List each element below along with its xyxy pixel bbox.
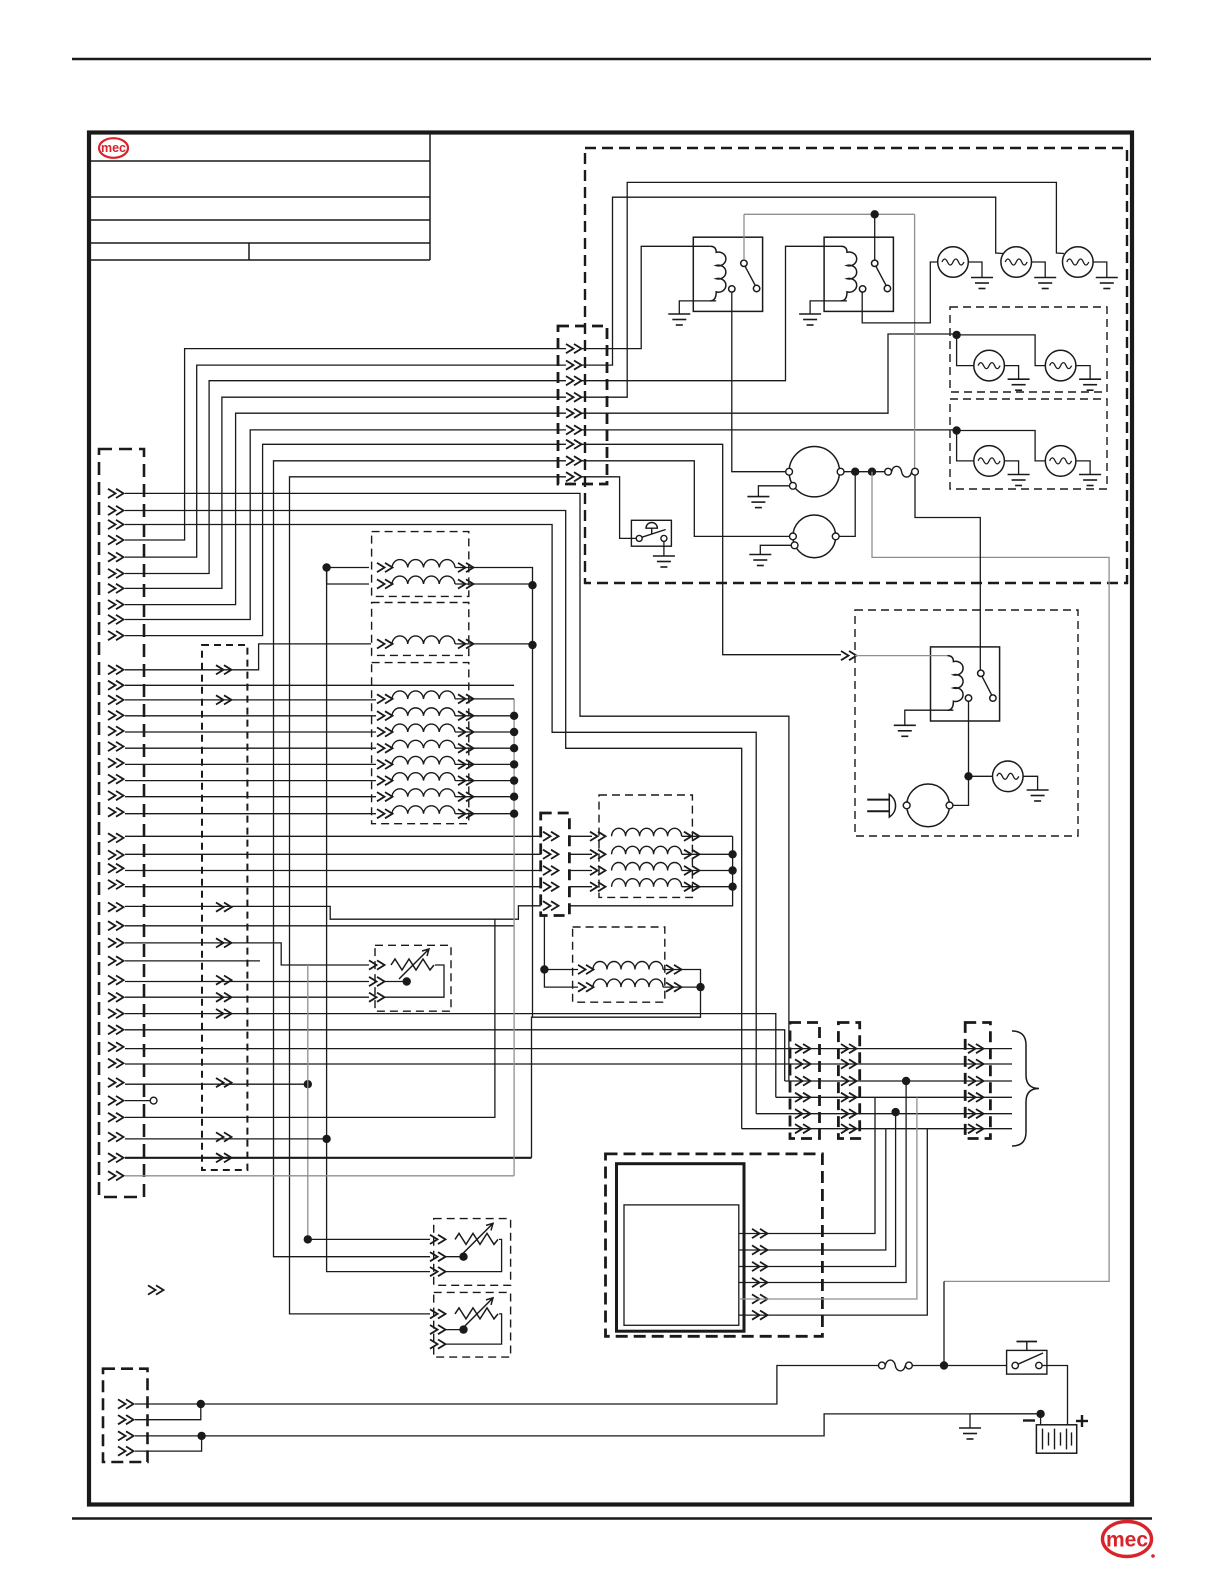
lamp L6a: [974, 446, 1005, 477]
ground (relay K1): [668, 314, 690, 325]
wire S2 to ground: [663, 541, 665, 556]
lamp L6b: [1045, 446, 1076, 477]
connector J1 pin arrows: [108, 489, 124, 1181]
fuse F2 left terminal: [879, 1362, 886, 1369]
wire J1 pin36 open terminal: [125, 1100, 150, 1102]
spare harness arrow: [148, 1285, 164, 1294]
valve V5 coil 2 right arrow: [666, 983, 682, 992]
wire charge rail to relay contacts: [744, 213, 915, 215]
valve V5 coil 1 right arrow: [666, 965, 682, 974]
ground (lamp L3): [1096, 278, 1118, 289]
wire J1 pin33 to J5/J6/J7 row1: [125, 1048, 1012, 1050]
wire V1 coil1 out: [455, 568, 533, 586]
connector J3 (middle top): [558, 326, 607, 484]
potentiometer P2: [455, 1223, 498, 1253]
potentiometer box P1: [375, 945, 451, 1011]
valve V1 coil 2 right arrow: [458, 579, 474, 588]
wire fuse F1 to charger relay: [915, 475, 980, 670]
wire battery rail drop: [943, 1281, 945, 1365]
ground (lamp L6b): [1079, 475, 1101, 486]
controller U1 pin arrows: [752, 1229, 768, 1320]
wire J1 pin28 stub: [125, 960, 260, 962]
platform enclosure (dashed): [585, 148, 1127, 583]
wire J3 pin9 to level switch S2: [582, 477, 636, 539]
valve block V5 (2 coils): [573, 927, 665, 1002]
wire motor M1 to fuse F1: [844, 471, 885, 473]
fuse F1 left terminal: [885, 468, 892, 475]
wire J1 pin3 to J5 pin5: [125, 525, 756, 1114]
wire U1 pin5: [739, 1097, 917, 1299]
wire J1 pin34 to J5/J6/J7 row2: [125, 1063, 1012, 1065]
node J8 34 junction: [197, 1432, 205, 1440]
node battery minus: [1036, 1410, 1044, 1418]
svg-text:mec: mec: [101, 141, 126, 155]
ground (lamp L1): [971, 278, 993, 289]
connector J8 (bottom left): [103, 1369, 148, 1462]
potentiometer P1 arrows: [369, 960, 385, 969]
wire U1 pin4: [739, 1081, 906, 1283]
top rule: [72, 58, 1151, 61]
wire J1 pin39 (heavy) to valve V5 return: [125, 1157, 532, 1159]
connector J3 pin arrows: [566, 344, 582, 481]
wire charger arrow to K3 coil: [855, 655, 947, 657]
valve V2 coil right arrow: [458, 639, 474, 648]
wire V5 coil2 out: [663, 986, 701, 988]
wire K1 common to motor M1: [732, 292, 786, 472]
connector J2 (second column): [202, 645, 247, 1170]
wire U1 pin1: [739, 1097, 875, 1233]
controller module U1 (inner): [624, 1205, 739, 1325]
fuse F1: [892, 466, 912, 477]
connector J1 (left column): [99, 449, 144, 1197]
fuse F1 right terminal: [912, 468, 919, 475]
wires J1 pins 14-20 to valve V3 coils 2-8: [125, 716, 376, 814]
nodes V4 return junctions: [728, 850, 736, 858]
valve V1 coil 2 left arrow: [377, 579, 393, 588]
wire feed to lamp L6b: [957, 431, 1046, 461]
wire J1 pin38 to node A: [125, 1138, 327, 1140]
valve block V3 (8 coils): [372, 663, 469, 824]
wire J1 pin31: [125, 1014, 776, 1098]
wire J4 drop to valve V5: [543, 916, 545, 970]
svg-text:mec: mec: [1106, 1529, 1148, 1552]
node battery rail tap: [940, 1361, 948, 1369]
wire J3 pin8 to level switch S2: [582, 461, 790, 537]
wire P2 element return: [444, 1239, 502, 1271]
wires J4 pins to valve V4: [569, 828, 732, 891]
label battery plus: [1076, 1415, 1088, 1427]
lamp L1: [938, 247, 969, 278]
connector J7: [965, 1023, 990, 1139]
ground (lamp L4a): [1008, 379, 1030, 390]
wire J1 pin40 to valve V3 common return: [125, 1175, 514, 1177]
connector J2 pin arrows: [216, 665, 232, 1162]
wire rail drop to K1 contact: [743, 214, 745, 260]
nodes V3 return junctions: [510, 712, 518, 818]
bottom rule: [72, 1517, 1152, 1520]
wire P3 element return: [444, 1314, 502, 1344]
brace (harness grouping): [1012, 1031, 1039, 1146]
wire V5 feed to coil2: [544, 970, 578, 988]
wire F2 to S1: [912, 1365, 1006, 1367]
wire motor M2 to node: [839, 472, 855, 537]
AC plug: [867, 794, 904, 817]
wire rail drop to K2 contact: [874, 214, 876, 260]
lamp L3: [1063, 247, 1094, 278]
wire J1 pin30 to potentiometer P1 pin3: [125, 996, 369, 998]
node P1 wiper tap: [403, 977, 411, 985]
wire P1 wiper: [383, 981, 407, 983]
ground (lamp L2): [1034, 278, 1056, 289]
MEC logo (title block): [99, 138, 128, 158]
wire lamp L4b to ground: [1076, 366, 1090, 380]
motor M2: [790, 515, 840, 558]
node F1 feed 2: [868, 468, 876, 476]
node feed L4: [952, 331, 960, 339]
wire battery rail (gray): [872, 472, 1109, 1282]
relay K2: [810, 237, 893, 314]
valve block V2 (1 coil): [372, 603, 469, 656]
lamp L4b: [1045, 350, 1076, 381]
fuse F2: [885, 1360, 905, 1371]
wire V2 coil out: [455, 643, 533, 645]
wire U1 pin3: [739, 1112, 896, 1266]
connector J8 pin arrows: [118, 1399, 134, 1455]
wire lamp L6b to ground: [1076, 461, 1090, 475]
node P2 wiper tap: [459, 1253, 467, 1261]
wire J1 pin37 riser to J4 pin5: [125, 919, 495, 1117]
controller module U1 (outer): [617, 1164, 745, 1332]
valve V1 coil 1 right arrow: [458, 563, 474, 572]
wire S1 to battery plus: [1042, 1366, 1067, 1425]
ground (charger lamp): [1027, 790, 1049, 801]
charger motor M3: [903, 784, 953, 827]
wire U1 pin2: [739, 1129, 886, 1250]
wire node to charger lamp: [969, 775, 993, 777]
solenoid coil V2-1: [392, 636, 455, 644]
potentiometer P3 arrows: [430, 1309, 446, 1318]
ground (motor M1): [747, 497, 769, 508]
wire J3 pin1 to relay K1 coil: [582, 246, 711, 348]
lamp L4a: [974, 350, 1005, 381]
wire rail riser from fuse F1: [914, 214, 916, 469]
wire J1 pin1 to J5 pin4: [125, 493, 789, 1081]
valve V2 coil left arrow: [377, 639, 393, 648]
potentiometer box P3: [434, 1292, 511, 1357]
wire J1/J3 pin9 net down to potentiometer P3: [290, 477, 567, 1314]
level switch S2: [631, 520, 671, 546]
lamp L2: [1001, 247, 1032, 278]
wire J1 pin35 to throttle pot node: [125, 1083, 308, 1085]
wire throttle pot riser (P1 pin1 / P2 pin1): [307, 965, 309, 1239]
wire J1 pin27 to potentiometer P1 pin1: [125, 943, 369, 965]
node J8 12 junction: [197, 1400, 205, 1408]
wire motor M1 to ground: [758, 486, 789, 497]
battery charger box: [855, 610, 1078, 836]
ground (lamp L6a): [1008, 475, 1030, 486]
wire motor M2 to ground: [760, 545, 791, 554]
ground (level switch S2): [653, 556, 675, 567]
ground (lamp L4b): [1079, 379, 1101, 390]
wire V5 feed to coil1: [544, 969, 578, 971]
wire J1 pin25 to J4 pin5: [125, 906, 541, 919]
connector J5 pin arrows: [795, 1044, 811, 1133]
motor M1: [786, 447, 844, 497]
wire feed to lamp L6a: [957, 431, 974, 461]
solenoid coil V1-1: [392, 560, 455, 568]
wire J3 pin6 to lamp group L6/L7: [582, 429, 953, 431]
wire charger lamp to ground: [1023, 776, 1038, 790]
node P2 pin1 junction: [304, 1235, 312, 1243]
potentiometer box P2: [434, 1219, 511, 1286]
wire ground lead: [970, 1413, 1041, 1415]
wire P2 wiper: [444, 1256, 464, 1258]
fuse F2 right terminal: [906, 1362, 913, 1369]
wire node A drop to potentiometer P2 pin3: [327, 1139, 430, 1272]
node A (V1 feed / P2 pin3): [322, 1135, 330, 1143]
node F1 feed 1: [851, 468, 859, 476]
wire J1/J3 pin8 net down to potentiometer P2: [274, 461, 567, 1257]
wire V1 feed to coil 2: [327, 568, 369, 585]
label battery minus: [1023, 1419, 1035, 1421]
ground (motor M2): [749, 555, 771, 566]
node V1 return junction: [528, 581, 536, 589]
lamp group box L6/L7: [950, 399, 1107, 489]
wire J1 pin2 to J5 pin6: [125, 511, 742, 1129]
wire J8 pins3+4 to battery minus: [135, 1414, 1041, 1436]
wire battery minus lead: [1040, 1414, 1042, 1425]
wire valve V3 common riser: [513, 699, 515, 1176]
wire J1 pin29 to potentiometer P1 wiper: [125, 981, 369, 983]
valve block V4 (4 coils): [599, 795, 692, 897]
wire charger motor to node: [953, 780, 969, 806]
charger lamp L8: [993, 761, 1024, 792]
wire J1 pin11 to valve V2 coil: [125, 644, 371, 670]
wire V5 return riser: [532, 987, 701, 1158]
wire J1 pin32: [125, 1030, 785, 1081]
controller module (outer dashed): [606, 1154, 823, 1336]
wire V1 feed to coil 1: [327, 567, 369, 569]
wire lamp L3 to ground: [1093, 262, 1107, 278]
valve V5 coil 1 left arrow: [578, 965, 594, 974]
node feed L6: [952, 426, 960, 434]
wires J1 pins 21-24 to J4 pins 1-4: [125, 836, 541, 886]
wires J5-J7 rows 3-6 to brace: [742, 1081, 1012, 1129]
wire J3 pin5 to lamp group L4/L5: [582, 334, 953, 413]
connector J6 pin arrows: [841, 1044, 857, 1133]
lamp group box L4/L5: [950, 307, 1107, 392]
potentiometer P3: [455, 1298, 498, 1328]
wire valve V1/V2 common return: [532, 585, 534, 1017]
valve V5 coil 2 left arrow: [578, 983, 594, 992]
wire J8 pin2 join: [135, 1404, 201, 1420]
node V5 return junction: [696, 983, 704, 991]
node J7 row5: [891, 1108, 899, 1116]
solenoid coil V5-2: [593, 979, 663, 987]
battery BT1: [1036, 1425, 1076, 1453]
potentiometer P2 arrows: [430, 1235, 446, 1244]
valve V3 coils 1-8 with arrows: [377, 691, 514, 818]
border frame: [89, 133, 1132, 1505]
title block: [91, 134, 430, 260]
wire P2 pin1: [308, 1238, 430, 1240]
wire feed to lamp L4a: [957, 335, 974, 366]
wire V1 coil2 out: [455, 583, 533, 585]
wire J3 pin4 to lamp L3: [582, 182, 1065, 397]
wire J8 pins1+2 to fuse F2: [135, 1366, 879, 1405]
wire J1 pin13 to valve V3 coil 1: [125, 699, 376, 701]
wire U1 pin6: [739, 1129, 928, 1315]
wire P1 element return: [383, 965, 444, 997]
potentiometer P1: [391, 949, 434, 979]
ground (battery minus): [959, 1428, 981, 1439]
wire V5 coil1 out: [663, 970, 701, 988]
wire V4 common return: [569, 836, 732, 906]
MEC logo (footer): [1103, 1522, 1155, 1558]
wire J3 pin2 to lamp L2: [582, 197, 1004, 365]
node charger output: [964, 772, 972, 780]
solenoid coil V5-1: [593, 962, 663, 970]
wire lamp L6a to ground: [1004, 461, 1018, 475]
charger input arrow: [841, 651, 857, 660]
wire bundle J1 pins 4-10 to J3 pins 1-7: [125, 349, 566, 636]
wire J1 pin12: [125, 684, 514, 686]
wire lamp L4a to ground: [1004, 366, 1018, 380]
connector J6: [838, 1023, 859, 1139]
node V2 return junction: [528, 641, 536, 649]
key switch S1: [1007, 1342, 1047, 1375]
wire K2 common to lamp L1: [862, 262, 937, 323]
connector J5: [790, 1023, 820, 1139]
wire feed to lamp L4b: [957, 335, 1046, 366]
wire node A riser to valve V1 feed: [326, 568, 328, 1139]
wire J8 pin4 join: [135, 1436, 202, 1451]
node V1 feed junction: [322, 563, 330, 571]
valve V1 coil 1 left arrow: [377, 563, 393, 572]
open terminal (unused pin): [150, 1097, 157, 1104]
wire J3 pin7 to charger relay coil: [582, 444, 842, 654]
solenoid coil V1-2: [392, 576, 455, 584]
node V5 feed junction: [540, 965, 548, 973]
node charge rail at K2: [871, 210, 879, 218]
ground (relay K2): [799, 314, 821, 325]
wire K3 common to charger node: [968, 701, 970, 776]
node throttle pot junction: [304, 1080, 312, 1088]
wire lamp L1 to ground: [968, 262, 982, 278]
connector J7 pin arrows: [968, 1044, 984, 1133]
connector J4 pin arrows: [543, 832, 559, 911]
wire lamp L2 to ground: [1032, 262, 1046, 278]
node J7 row3: [902, 1077, 910, 1085]
valve block V1 (2 coils): [372, 532, 469, 597]
ground (charger relay K3): [894, 725, 916, 736]
wire J1 pin26: [125, 925, 514, 927]
wire K3 coil to ground: [905, 710, 954, 725]
wire J3 pin3 to relay K2 coil: [582, 246, 842, 380]
node P3 wiper tap: [459, 1325, 467, 1333]
charger relay K3: [931, 647, 1000, 721]
connector J4 (middle small): [541, 813, 570, 916]
relay K1: [679, 237, 762, 314]
wire P3 wiper: [444, 1329, 464, 1331]
